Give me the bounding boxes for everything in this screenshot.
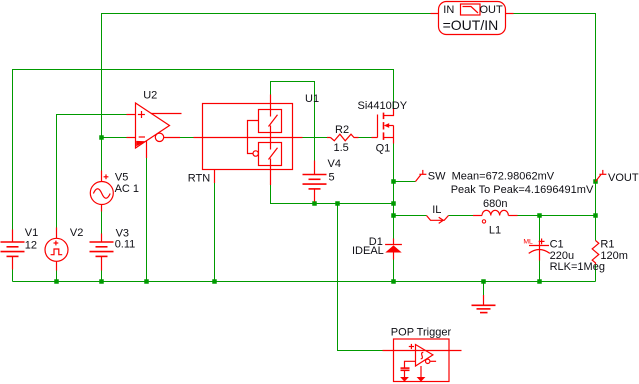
wire ground rail bottom xyxy=(13,281,596,283)
svg-text:680n: 680n xyxy=(483,198,507,210)
wire ratio block OUT to VOUT vertical xyxy=(514,14,596,241)
junction minus input node xyxy=(99,135,104,140)
svg-text:V2: V2 xyxy=(70,227,83,239)
svg-text:V4: V4 xyxy=(328,158,341,170)
wire V4 bottom xyxy=(314,201,316,204)
wire U1 top pin bracket to V4 xyxy=(271,82,315,161)
wire U1 RTN to ground rail xyxy=(214,183,216,282)
svg-text:L1: L1 xyxy=(489,225,501,237)
wire SW to IL probe xyxy=(394,215,427,217)
op-amp U2 xyxy=(127,103,182,158)
svg-text:RTN: RTN xyxy=(188,173,210,185)
svg-text:IL: IL xyxy=(432,204,441,216)
source V2 xyxy=(45,228,68,271)
wire V2 to ground rail xyxy=(56,271,58,282)
junction SW to L1 xyxy=(391,213,396,218)
svg-text:=OUT/IN: =OUT/IN xyxy=(443,17,499,33)
probe VOUT xyxy=(596,170,607,182)
svg-text:R2: R2 xyxy=(335,124,349,136)
resistor R1 xyxy=(592,241,599,265)
svg-text:1.5: 1.5 xyxy=(334,142,349,154)
wire node minus input to op-amp xyxy=(102,137,127,139)
wire C1 top stub xyxy=(539,216,541,241)
wire R2 to Q1 gate xyxy=(359,137,372,139)
ground xyxy=(472,295,496,313)
wire V2 to op-amp plus input xyxy=(57,115,127,228)
wire IL probe to L1 xyxy=(449,215,474,217)
wire C1 bottom to rail xyxy=(539,261,541,282)
wire U1 bottom pin down xyxy=(271,185,394,204)
junction rail D1 xyxy=(391,279,396,284)
inductor L1 xyxy=(473,210,518,223)
battery V1 xyxy=(1,230,25,270)
source V5 xyxy=(90,171,113,212)
junction VOUT probe xyxy=(593,179,598,184)
junction R1 top xyxy=(593,213,598,218)
svg-text:V1: V1 xyxy=(25,227,38,239)
wire V3 to ground rail xyxy=(101,271,103,282)
junction rail V2 xyxy=(54,279,59,284)
wire op-amp ground stem xyxy=(146,158,148,282)
junction SW probe xyxy=(391,179,396,184)
svg-text:ML: ML xyxy=(523,239,533,246)
svg-text:U1: U1 xyxy=(305,93,319,105)
svg-text:5: 5 xyxy=(329,171,335,183)
svg-text:AC 1: AC 1 xyxy=(115,183,139,195)
wire L1 to output node xyxy=(518,215,596,217)
svg-text:V5: V5 xyxy=(115,172,128,184)
svg-text:OUT: OUT xyxy=(480,4,504,16)
wire U1 out to R2 xyxy=(303,137,328,139)
junction SW drive return xyxy=(391,201,396,206)
svg-text:POP Trigger: POP Trigger xyxy=(391,327,452,339)
battery V4 xyxy=(303,161,327,202)
svg-text:0.11: 0.11 xyxy=(115,238,136,250)
wire V1 to ground rail xyxy=(12,270,14,282)
junction POP tap xyxy=(335,201,340,206)
svg-text:R1: R1 xyxy=(600,239,614,251)
svg-text:12: 12 xyxy=(25,240,37,252)
wire SW probe stub xyxy=(394,181,416,183)
transistor Q1 Si4410DY xyxy=(372,108,394,144)
svg-text:RLK=1Meg: RLK=1Meg xyxy=(550,261,605,273)
junction rail C1 xyxy=(537,279,542,284)
wire op-amp output to U1 xyxy=(180,137,194,139)
svg-text:U2: U2 xyxy=(143,90,157,102)
junction V4 return xyxy=(312,201,317,206)
wire top rail V1 plus to Q1 drain xyxy=(13,70,394,230)
svg-text:Peak To Peak=4.1696491mV: Peak To Peak=4.1696491mV xyxy=(451,184,594,196)
junction rail V3 xyxy=(99,279,104,284)
junction C1 top xyxy=(537,213,542,218)
svg-text:Q1: Q1 xyxy=(376,143,391,155)
svg-text:SW Mean=672.98062mV: SW Mean=672.98062mV xyxy=(428,171,555,183)
junction rail ground xyxy=(481,279,486,284)
probe IL xyxy=(427,216,449,224)
diode D1 xyxy=(385,239,402,260)
svg-text:VOUT: VOUT xyxy=(608,172,639,184)
POP trigger block xyxy=(383,339,462,382)
resistor R2 xyxy=(327,134,359,141)
probe SW xyxy=(416,170,427,182)
ratio block bode probe xyxy=(431,2,514,35)
svg-text:120m: 120m xyxy=(600,250,628,262)
U1 driver block xyxy=(194,95,303,186)
junction rail op-amp ground xyxy=(144,279,149,284)
svg-text:C1: C1 xyxy=(550,239,564,251)
wire R1 bottom to rail xyxy=(595,265,597,282)
wire top net V5 to ratio block IN xyxy=(102,14,431,171)
wire ground symbol stub xyxy=(483,282,485,296)
svg-text:IDEAL: IDEAL xyxy=(352,245,384,257)
svg-text:IN: IN xyxy=(443,4,454,16)
junction rail RTN xyxy=(212,279,217,284)
capacitor C1 xyxy=(529,239,550,261)
wire POP trigger net xyxy=(338,204,383,351)
battery V3 xyxy=(90,234,114,271)
wire V5 to V3 xyxy=(101,212,103,234)
svg-text:Si4410DY: Si4410DY xyxy=(358,100,408,112)
wire SW node vertical xyxy=(393,144,395,239)
wire D1 anode to rail xyxy=(393,260,395,282)
